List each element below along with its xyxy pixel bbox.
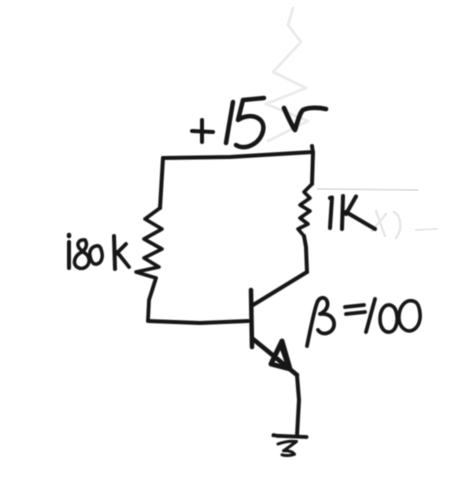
ground [274, 435, 307, 455]
value label 1K [330, 196, 375, 229]
resistor R2 zigzag [298, 184, 312, 236]
label beta = 100 [307, 298, 420, 346]
label +15V supply [192, 98, 326, 147]
value label 180k [69, 235, 129, 269]
wire R2 bottom lead [304, 236, 307, 272]
transistor Q1 collector stroke [253, 272, 307, 305]
wire base horizontal [148, 321, 248, 323]
wire emitter vertical [297, 375, 299, 436]
wire R1 bottom lead [148, 278, 156, 320]
transistor Q1 emitter stroke [253, 339, 297, 375]
wire top rail [163, 146, 313, 158]
transistor Q1 emitter arrow [271, 341, 290, 369]
resistor R1 zigzag [136, 208, 162, 278]
transistor Q1 base bar [251, 290, 252, 347]
wire left vertical from rail to R1 [160, 158, 163, 208]
wire right vertical to rail [312, 152, 313, 184]
